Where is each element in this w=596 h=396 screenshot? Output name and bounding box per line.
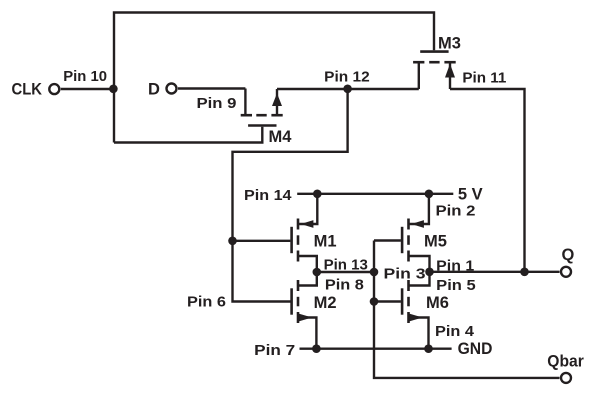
node Pin 12 junction [343,85,352,94]
transistor M2 [292,272,317,349]
node 5V junction [425,190,434,199]
svg-text:Pin 9: Pin 9 [197,95,237,112]
wire M3 drain right and down to Q [450,89,525,272]
transistor M4 [241,89,283,126]
wire 5V rail [297,193,453,195]
svg-text:Pin 5: Pin 5 [436,277,476,294]
wire Pin3 node to Q terminal [430,271,560,273]
svg-text:CLK: CLK [12,81,43,99]
svg-text:D: D [148,81,160,99]
wire CLK to junction [61,88,114,90]
wire M1 gate branch [233,240,291,242]
transistor M6 [402,272,429,349]
svg-text:Q: Q [562,246,575,264]
transistor M5 [402,194,429,272]
wire center vertical to Qbar [374,241,560,378]
wire Pin12 down-left-down to M2 gate [233,89,348,302]
svg-text:M3: M3 [438,35,461,53]
svg-text:Pin 13: Pin 13 [324,257,368,274]
node GND junction [424,344,433,353]
wire Pin13 node to center [317,271,374,273]
transistor M3 [413,52,456,89]
wire M4 drain to M3 source [277,88,419,90]
svg-text:Pin 4: Pin 4 [435,323,475,340]
svg-text:M1: M1 [314,232,337,250]
node M1 gate junction [228,237,237,246]
node Pin 7 junction [312,344,321,353]
node Pin 13 junction [313,268,322,277]
svg-text:Pin 14: Pin 14 [244,187,292,204]
svg-text:Pin 2: Pin 2 [436,203,476,220]
node M6 gate junction [370,297,379,306]
svg-text:5 V: 5 V [458,186,483,204]
svg-text:Qbar: Qbar [547,352,584,370]
svg-text:M2: M2 [314,294,337,312]
terminal CLK [49,84,59,94]
svg-text:Pin 3: Pin 3 [384,265,426,282]
svg-text:Pin 8: Pin 8 [325,277,364,294]
svg-text:M5: M5 [424,232,447,250]
wire D to M4 source [178,87,245,89]
svg-text:Pin 1: Pin 1 [436,258,474,275]
svg-text:Pin 7: Pin 7 [254,342,295,359]
node CLK junction [109,85,118,94]
wire top rail [114,13,434,143]
svg-text:Pin 11: Pin 11 [462,70,506,87]
svg-text:Pin 10: Pin 10 [63,68,107,85]
wire CLK down to M4 gate [114,127,262,143]
node Q junction [520,268,529,277]
svg-text:Pin 6: Pin 6 [187,293,226,310]
terminal Qbar [561,373,571,383]
wire M5 gate lead [374,239,401,241]
terminal Q [561,267,571,277]
node Pin 14 junction [313,190,322,199]
wire M6 gate lead [374,300,401,302]
terminal D [167,84,177,94]
node center junction [370,268,379,277]
svg-text:Pin 12: Pin 12 [324,69,370,86]
node Pin 3 junction [425,268,434,277]
svg-text:GND: GND [458,340,493,358]
svg-text:M4: M4 [269,128,293,146]
transistor M1 [292,194,318,272]
wire GND rail [300,348,452,350]
svg-text:M6: M6 [426,294,449,312]
